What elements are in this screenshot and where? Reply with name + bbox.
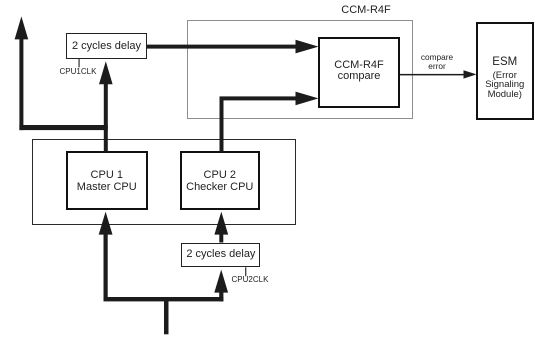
arrow into delay1 bottom xyxy=(99,61,113,84)
wire CPU2 top elbow horizontal xyxy=(220,96,297,100)
wire bottom vertical into CPU1 xyxy=(104,234,108,300)
arrow into CPU1 bottom xyxy=(99,212,113,235)
block CPU container xyxy=(32,139,296,225)
wire delay2 to CPU2 shaft xyxy=(219,234,223,243)
block ESM (Error Signaling Module) xyxy=(476,22,535,120)
label CPU2CLK xyxy=(232,275,269,284)
block CPU 2 Checker CPU xyxy=(180,151,261,210)
block CCM-R4F compare xyxy=(318,37,400,108)
wire branch horizontal to left arrow xyxy=(19,125,107,130)
wire compare to ESM (thin) xyxy=(400,74,465,76)
wire left arrow shaft xyxy=(19,38,23,130)
wire tick delay2 to CPU2CLK xyxy=(245,267,246,276)
wire CPU1 top vertical xyxy=(104,84,108,152)
label compare error xyxy=(421,53,453,71)
arrow into ESM xyxy=(464,70,477,78)
arrow into compare input 1 xyxy=(296,40,319,54)
label CPU1CLK xyxy=(60,67,97,76)
wire bottom stub down xyxy=(164,299,169,334)
arrow into compare input 2 xyxy=(296,92,319,106)
wire delay1 right to compare (horizontal) xyxy=(147,45,296,49)
block 2 cycles delay (CPU2CLK) xyxy=(181,243,260,268)
arrow up leftmost xyxy=(15,16,29,39)
wire bottom to delay2 shaft xyxy=(219,292,223,301)
block CCM-R4F outer boundary xyxy=(187,20,413,119)
wire CPU2 top vertical xyxy=(220,98,224,151)
block 2 cycles delay (CPU1CLK) xyxy=(66,33,147,59)
arrow into delay2 bottom xyxy=(214,270,228,293)
wire tick delay1 to CPU1CLK xyxy=(79,59,80,68)
arrow into CPU2 bottom xyxy=(214,212,228,235)
wire bottom horizontal xyxy=(104,297,224,301)
block CPU 1 Master CPU xyxy=(66,151,149,210)
label CCM-R4F title xyxy=(341,4,391,16)
